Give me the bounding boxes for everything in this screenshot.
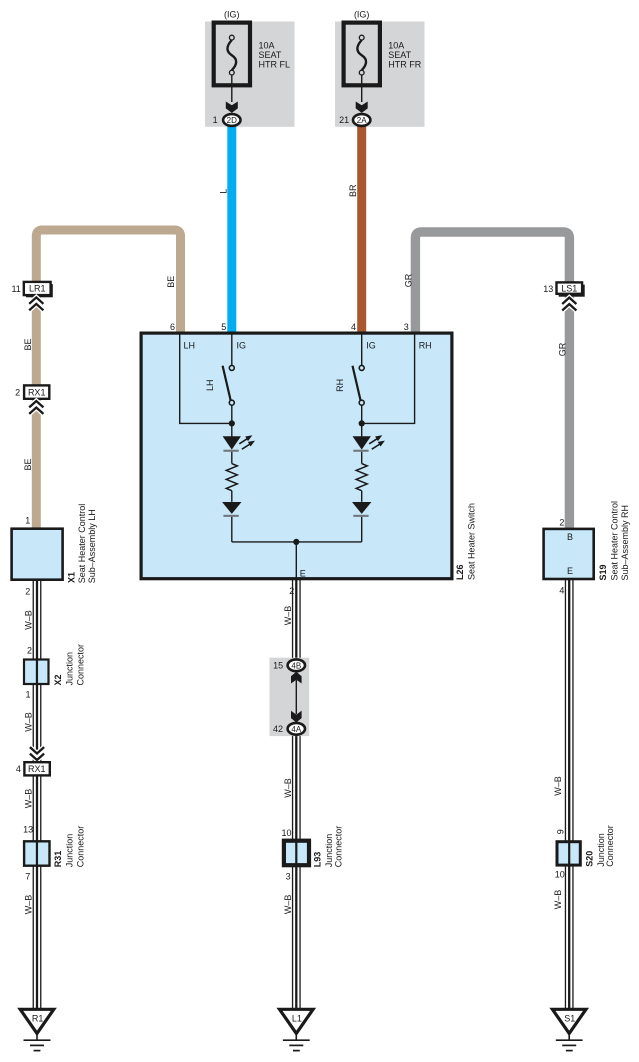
wire between 4B and 4A bbox=[295, 680, 297, 714]
resistor RH bbox=[356, 464, 367, 491]
svg-text:RX1: RX1 bbox=[28, 387, 46, 397]
seat heater switch L26 box bbox=[141, 333, 452, 579]
LED LH bbox=[223, 435, 255, 452]
wire LH switch to LED bbox=[231, 405, 233, 437]
svg-text:Junction: Junction bbox=[324, 834, 334, 868]
svg-text:RX1: RX1 bbox=[28, 764, 46, 774]
svg-text:1: 1 bbox=[25, 516, 30, 526]
connector RX1 pin 2 bbox=[15, 385, 49, 398]
svg-text:1: 1 bbox=[213, 115, 218, 125]
wire fuse FL output bbox=[231, 75, 233, 102]
svg-text:21: 21 bbox=[339, 115, 349, 125]
wire LED to resistor RH bbox=[361, 452, 363, 464]
fuse block background FL bbox=[205, 22, 295, 127]
junction connector S20 bbox=[555, 825, 615, 879]
svg-text:X2: X2 bbox=[53, 674, 63, 685]
svg-text:13: 13 bbox=[23, 825, 33, 835]
svg-text:L26: L26 bbox=[455, 564, 465, 580]
svg-text:S19: S19 bbox=[598, 564, 608, 580]
wire W-B right column bbox=[565, 579, 574, 1012]
fuse F2 10A SEAT HTR FR bbox=[344, 9, 422, 85]
node RH junction bbox=[359, 420, 365, 426]
wire RH pin elbow bbox=[364, 334, 415, 423]
svg-text:Seat Heater Control: Seat Heater Control bbox=[610, 501, 620, 581]
wire diode LH to rail bbox=[231, 517, 233, 542]
svg-text:R1: R1 bbox=[32, 1013, 44, 1023]
svg-text:5: 5 bbox=[221, 322, 226, 332]
svg-text:4: 4 bbox=[559, 585, 564, 595]
svg-text:2: 2 bbox=[289, 586, 294, 596]
node E junction bbox=[293, 539, 299, 545]
svg-text:HTR FR: HTR FR bbox=[388, 59, 421, 69]
svg-text:(IG): (IG) bbox=[354, 9, 370, 19]
svg-text:4: 4 bbox=[16, 764, 21, 774]
svg-text:L: L bbox=[218, 189, 228, 194]
wire W-B middle column upper bbox=[292, 579, 301, 662]
junction connector L93 bbox=[281, 826, 343, 882]
connector 4A pin 42 bbox=[273, 723, 305, 735]
wire IG to LH switch bbox=[231, 334, 233, 365]
switch RH bbox=[335, 365, 364, 405]
svg-text:10: 10 bbox=[281, 828, 291, 838]
svg-text:2D: 2D bbox=[227, 116, 237, 125]
svg-text:4A: 4A bbox=[291, 725, 301, 734]
svg-text:4B: 4B bbox=[291, 661, 301, 670]
svg-text:2: 2 bbox=[27, 646, 32, 656]
svg-text:11: 11 bbox=[11, 284, 20, 294]
arrow into connector 2A bbox=[356, 102, 368, 113]
junction connector R31 bbox=[23, 825, 85, 882]
wire resistor to diode LH bbox=[231, 491, 233, 502]
connector 4B pin 15 bbox=[273, 659, 305, 671]
svg-text:7: 7 bbox=[25, 872, 30, 882]
svg-text:Connector: Connector bbox=[76, 644, 86, 686]
svg-text:3: 3 bbox=[404, 322, 409, 332]
svg-text:Junction: Junction bbox=[64, 652, 74, 686]
svg-text:GR: GR bbox=[403, 273, 413, 287]
svg-text:BE: BE bbox=[23, 338, 33, 350]
connector LR1 pin 11 bbox=[11, 282, 52, 297]
fuse F1 10A SEAT HTR FL bbox=[214, 9, 290, 85]
svg-text:L1: L1 bbox=[292, 1013, 302, 1023]
svg-text:S20: S20 bbox=[585, 851, 595, 867]
label L26 Seat Heater Switch bbox=[455, 503, 477, 580]
svg-text:3: 3 bbox=[286, 872, 291, 882]
harness junction background 4B/4A bbox=[270, 658, 310, 736]
wire W-B left column bbox=[33, 580, 42, 1012]
svg-text:IG: IG bbox=[366, 340, 376, 350]
svg-text:W–B: W–B bbox=[553, 890, 563, 910]
svg-text:Sub–Assembly LH: Sub–Assembly LH bbox=[87, 509, 97, 583]
svg-text:2: 2 bbox=[15, 388, 20, 398]
svg-text:13: 13 bbox=[543, 284, 553, 294]
svg-text:9: 9 bbox=[556, 829, 566, 834]
svg-text:Connector: Connector bbox=[76, 826, 86, 868]
wire GR (gray) from switch pin 3 to S19 pin 2 bbox=[415, 232, 569, 529]
svg-text:Connector: Connector bbox=[605, 825, 615, 867]
ground L1 bbox=[280, 1009, 314, 1050]
svg-text:1: 1 bbox=[25, 690, 30, 700]
arrow into connector 2D bbox=[226, 102, 238, 113]
junction connector X2 bbox=[24, 644, 86, 700]
arrow into connector 4B bbox=[291, 672, 302, 684]
wire IG to RH switch bbox=[361, 334, 363, 365]
wire L (blue) from fuse 2D to switch pin 5 bbox=[227, 122, 236, 333]
svg-text:BE: BE bbox=[23, 458, 33, 470]
svg-text:2A: 2A bbox=[357, 116, 367, 125]
wire BE (beige) from switch pin 6 to X1 pin 1 bbox=[36, 230, 180, 529]
switch LH bbox=[205, 365, 234, 405]
chevron below RX1 bbox=[29, 401, 43, 414]
ECU X1 Seat Heater Control Sub-Assembly LH bbox=[12, 504, 97, 597]
connector 2D pin 1 bbox=[213, 114, 241, 126]
wire diode RH to rail bbox=[361, 517, 363, 542]
svg-text:W–B: W–B bbox=[283, 895, 293, 915]
svg-text:Connector: Connector bbox=[334, 826, 344, 868]
svg-text:HTR FL: HTR FL bbox=[259, 59, 291, 69]
svg-text:X1: X1 bbox=[66, 572, 76, 583]
svg-text:LH: LH bbox=[205, 379, 215, 391]
svg-text:2: 2 bbox=[559, 518, 564, 528]
ground S1 bbox=[552, 1009, 586, 1050]
svg-text:6: 6 bbox=[170, 322, 175, 332]
svg-text:S1: S1 bbox=[564, 1013, 575, 1023]
svg-text:RH: RH bbox=[335, 379, 345, 392]
svg-text:BE: BE bbox=[166, 276, 176, 288]
arrow into connector 4A bbox=[291, 711, 302, 723]
resistor LH bbox=[226, 464, 237, 491]
svg-text:W–B: W–B bbox=[24, 610, 34, 630]
svg-text:W–B: W–B bbox=[283, 606, 293, 626]
svg-text:W–B: W–B bbox=[283, 778, 293, 798]
connector 2A pin 21 bbox=[339, 114, 370, 126]
svg-text:W–B: W–B bbox=[24, 895, 34, 915]
svg-text:LR1: LR1 bbox=[29, 284, 46, 294]
chevron below LR1 bbox=[29, 297, 43, 310]
node LH junction bbox=[229, 420, 235, 426]
ground R1 bbox=[20, 1009, 54, 1050]
svg-text:2: 2 bbox=[25, 586, 30, 596]
svg-text:Seat Heater Switch: Seat Heater Switch bbox=[466, 503, 476, 580]
svg-text:15: 15 bbox=[273, 661, 283, 671]
svg-text:E: E bbox=[300, 569, 306, 579]
svg-text:10: 10 bbox=[555, 869, 565, 879]
svg-text:L93: L93 bbox=[312, 852, 322, 868]
wire LED to resistor LH bbox=[231, 452, 233, 464]
wire bottom rail bbox=[232, 542, 362, 579]
svg-text:LH: LH bbox=[184, 340, 196, 350]
wire LH pin elbow bbox=[180, 334, 230, 423]
svg-text:(IG): (IG) bbox=[224, 9, 240, 19]
svg-text:B: B bbox=[567, 532, 573, 542]
ECU S19 Seat Heater Control Sub-Assembly RH bbox=[544, 501, 630, 595]
connector LS1 pin 13 bbox=[543, 282, 584, 296]
svg-text:GR: GR bbox=[558, 342, 568, 356]
svg-text:4: 4 bbox=[351, 322, 356, 332]
diode RH bbox=[352, 502, 371, 517]
diode LH bbox=[222, 502, 241, 517]
svg-text:E: E bbox=[567, 566, 573, 576]
svg-text:Sub–Assembly RH: Sub–Assembly RH bbox=[620, 505, 630, 581]
svg-text:RH: RH bbox=[419, 340, 432, 350]
svg-text:IG: IG bbox=[237, 340, 247, 350]
svg-text:W–B: W–B bbox=[24, 789, 34, 809]
svg-text:42: 42 bbox=[273, 724, 283, 734]
wire RH switch to LED bbox=[361, 405, 363, 437]
chevron above RX1 pin 4 bbox=[30, 747, 44, 760]
fuse block background FR bbox=[335, 22, 425, 127]
svg-text:Seat Heater Control: Seat Heater Control bbox=[77, 504, 87, 584]
wire fuse FR output bbox=[361, 75, 363, 102]
wire BR (brown) from fuse 2A to switch pin 4 bbox=[357, 122, 366, 333]
wire W-B middle column lower bbox=[292, 733, 301, 1012]
svg-text:R31: R31 bbox=[53, 851, 63, 868]
svg-text:BR: BR bbox=[348, 184, 358, 197]
svg-text:LS1: LS1 bbox=[561, 284, 577, 294]
svg-text:W–B: W–B bbox=[24, 712, 34, 732]
LED RH bbox=[353, 435, 385, 452]
connector RX1 pin 4 bbox=[16, 762, 50, 775]
svg-text:W–B: W–B bbox=[553, 776, 563, 796]
wire resistor to diode RH bbox=[361, 491, 363, 502]
chevron below LS1 bbox=[562, 298, 576, 311]
svg-text:Junction: Junction bbox=[64, 834, 74, 868]
